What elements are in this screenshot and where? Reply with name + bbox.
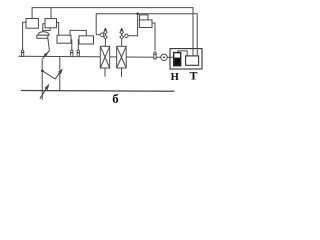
svg-text:Н: Н — [171, 72, 179, 83]
svg-text:Т: Т — [189, 69, 197, 83]
svg-text:б: б — [112, 92, 118, 106]
